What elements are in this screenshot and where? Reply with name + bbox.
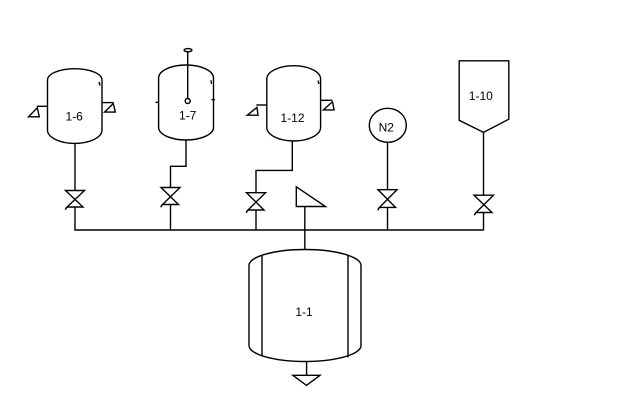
vessel 1-12 — [267, 66, 321, 141]
wire from 1-12 bottom (jog) — [256, 141, 292, 193]
N2 circle — [369, 108, 406, 142]
wire from 1-6 bottom to valve — [74, 143, 76, 191]
vessel 1-1 — [249, 250, 361, 362]
valve V3 under 1-12 — [246, 193, 265, 213]
nozzle line left of 1-6 — [37, 105, 48, 107]
wire from valve V4 to header — [387, 207, 389, 230]
nozzle line right of 1-6 — [102, 102, 113, 104]
vessel 1-7 — [159, 65, 214, 140]
tick right wall 1-7 — [212, 99, 216, 101]
svg-text:1-1: 1-1 — [295, 305, 313, 319]
wire from funnel to vessel 1-1 — [304, 207, 306, 250]
svg-text:1-6: 1-6 — [66, 110, 84, 124]
nozzle triangle right of 1-6 — [105, 104, 116, 113]
wire from valve V3 to header — [255, 210, 257, 231]
wire from valve V5 to header — [483, 213, 485, 231]
wire from N2 to valve — [387, 142, 389, 189]
valve V5 under 1-10 — [474, 195, 494, 215]
wire from valve V1 to header — [74, 207, 76, 231]
agitator circle of 1-7 — [185, 99, 190, 104]
header wire — [74, 229, 483, 231]
inner line left of 1-1 — [261, 255, 263, 356]
nozzle line right of 1-12 — [321, 99, 333, 101]
valve V4 under N2 — [378, 190, 397, 211]
agitator shaft of 1-7 — [187, 52, 189, 99]
nozzle line left of 1-12 — [256, 104, 266, 106]
outlet triangle under 1-1 — [293, 375, 320, 385]
svg-text:1-12: 1-12 — [280, 111, 304, 125]
wire from valve V2 to header — [170, 205, 172, 231]
svg-text:1-10: 1-10 — [469, 89, 493, 103]
wire from 1-10 to valve — [483, 132, 485, 195]
vessel 1-6 — [48, 69, 103, 144]
valve V1 under 1-6 — [65, 191, 84, 210]
svg-text:1-7: 1-7 — [179, 109, 197, 123]
nozzle triangle right of 1-12 — [323, 102, 334, 110]
valve V2 under 1-7 — [161, 188, 180, 208]
agitator ellipse on 1-7 — [184, 49, 192, 52]
vessel 1-10 hopper — [459, 61, 509, 133]
nozzle triangle left of 1-12 — [247, 107, 258, 115]
nozzle triangle left of 1-6 — [29, 108, 40, 117]
tick left wall 1-7 — [156, 101, 159, 103]
tick inside vessel 1-6 — [99, 82, 100, 86]
inner line right of 1-1 — [347, 255, 349, 357]
funnel triangle above 1-1 inlet — [296, 187, 325, 207]
wire from 1-7 bottom (jog) — [171, 140, 187, 188]
tick inside vessel 1-12 — [318, 81, 319, 85]
tick inside vessel 1-7 — [210, 80, 213, 84]
svg-text:N2: N2 — [379, 120, 395, 134]
wire from 1-1 bottom — [306, 362, 308, 376]
